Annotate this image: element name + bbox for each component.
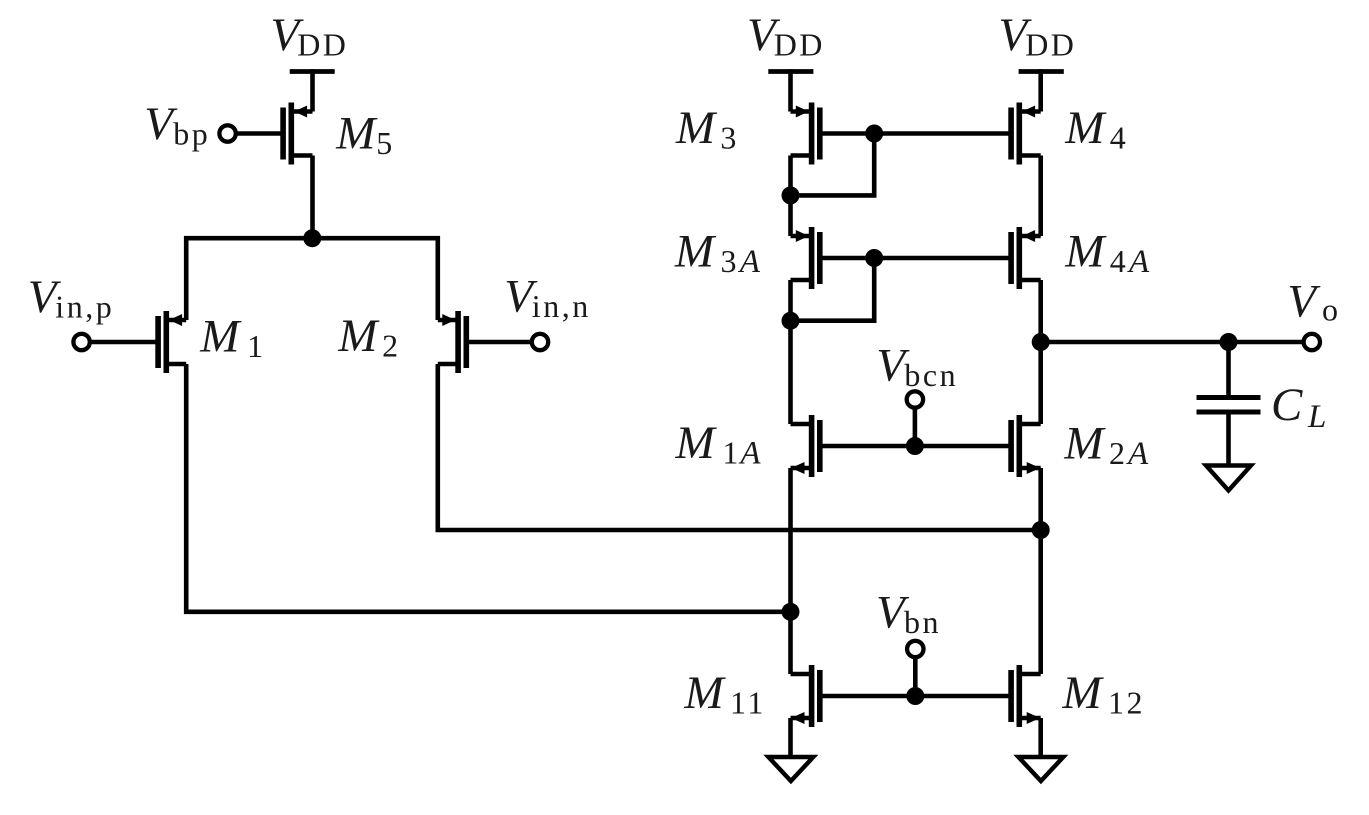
svg-text:DD: DD xyxy=(774,27,825,63)
svg-text:M: M xyxy=(1062,667,1105,719)
node C_L tap xyxy=(1220,333,1238,351)
terminal V_bn xyxy=(907,641,923,657)
svg-text:in,p: in,p xyxy=(55,288,114,324)
svg-text:3: 3 xyxy=(720,120,739,156)
terminal V_in,n xyxy=(532,334,548,350)
ground M12 xyxy=(1018,757,1063,781)
wire V_in,p to M1 gate xyxy=(89,340,158,345)
svg-text:A: A xyxy=(738,244,762,280)
transistor M4 (PMOS) xyxy=(1011,103,1041,165)
wire output xyxy=(1041,340,1304,345)
svg-text:bn: bn xyxy=(904,604,941,640)
wire M3 diode connection xyxy=(791,134,875,196)
svg-text:M: M xyxy=(337,310,380,362)
wire M2 drain down and right to M2A source column xyxy=(438,364,1041,530)
node M3A drain xyxy=(782,312,800,330)
svg-text:M: M xyxy=(674,226,717,278)
svg-text:M: M xyxy=(684,667,727,719)
wire VDD to M5 source xyxy=(310,69,315,111)
terminal V_bp xyxy=(219,125,235,141)
transistor M2A (NMOS) xyxy=(1011,415,1041,477)
svg-text:o: o xyxy=(1322,292,1341,328)
transistor M3 (PMOS mirrored) xyxy=(791,103,820,165)
svg-text:2: 2 xyxy=(1109,435,1128,471)
svg-text:1: 1 xyxy=(722,435,741,471)
svg-text:3: 3 xyxy=(721,243,740,279)
transistor M1 (PMOS) xyxy=(158,311,186,373)
svg-text:M: M xyxy=(335,108,378,160)
svg-text:M: M xyxy=(675,102,718,154)
wire M11 source to ground xyxy=(788,718,793,757)
wire M1A source down to M11 drain xyxy=(788,468,793,674)
svg-text:M: M xyxy=(1064,102,1107,154)
svg-text:2: 2 xyxy=(382,328,401,364)
svg-text:A: A xyxy=(738,436,762,472)
svg-text:12: 12 xyxy=(1108,685,1145,721)
wire V_bn terminal xyxy=(913,656,918,696)
svg-text:C: C xyxy=(1271,379,1303,431)
node V_bn xyxy=(906,687,924,705)
wire output node to capacitor xyxy=(1226,342,1231,395)
wire M1 drain down and right to node below M11 column xyxy=(186,364,790,612)
node M3 gate xyxy=(865,125,883,143)
terminal V_in,p xyxy=(73,334,89,350)
transistor M2 (PMOS mirrored) xyxy=(438,311,467,373)
transistor M11 (NMOS mirrored) xyxy=(791,665,820,727)
VDD rail symbol middle (M3) xyxy=(768,69,813,74)
wire M2A drain up to output node xyxy=(1038,342,1043,424)
svg-text:1: 1 xyxy=(247,328,266,364)
wire VDD to M4 source xyxy=(1038,69,1043,111)
svg-text:A: A xyxy=(1127,244,1151,280)
wire V_bcn terminal xyxy=(913,407,918,446)
svg-text:A: A xyxy=(1126,436,1150,472)
svg-text:M: M xyxy=(1063,418,1106,470)
transistor M12 (NMOS) xyxy=(1011,665,1041,727)
ground M11 xyxy=(768,757,813,781)
wire VDD to M3 source xyxy=(788,69,793,111)
node M1 drain junction xyxy=(782,603,800,621)
wire M3A drain to M1A drain xyxy=(788,280,793,424)
svg-text:DD: DD xyxy=(297,27,348,63)
wire gate bus M3-M4 xyxy=(820,131,1011,136)
wire M2 gate to V_in,n xyxy=(466,340,533,345)
node M3 drain xyxy=(782,186,800,204)
svg-text:bp: bp xyxy=(173,116,210,152)
svg-text:in,n: in,n xyxy=(532,288,591,324)
node V_bcn xyxy=(906,437,924,455)
svg-text:L: L xyxy=(1307,399,1328,435)
wire M4A drain to output node xyxy=(1038,280,1043,342)
wire M2A source down to M12 drain xyxy=(1038,468,1043,674)
svg-text:M: M xyxy=(1064,226,1107,278)
svg-text:5: 5 xyxy=(376,125,395,161)
VDD rail symbol left (M5) xyxy=(290,69,335,74)
svg-text:DD: DD xyxy=(1025,27,1076,63)
wire M3A diode connection xyxy=(791,258,875,321)
node M3A gate xyxy=(865,249,883,267)
svg-text:bcn: bcn xyxy=(904,357,958,393)
wire gate bus M3A-M4A xyxy=(820,256,1011,261)
wire tail rail with M1/M2 source risers xyxy=(186,238,438,320)
svg-text:11: 11 xyxy=(730,685,766,721)
wire M4 drain to M4A source xyxy=(1038,156,1043,237)
wire gate bus M11-M12 xyxy=(820,694,1011,699)
wire M3 drain to M3A source xyxy=(788,156,793,237)
transistor M1A (NMOS mirrored) xyxy=(791,415,820,477)
transistor M3A (PMOS mirrored) xyxy=(791,227,820,289)
terminal V_bcn xyxy=(907,391,923,407)
svg-text:4: 4 xyxy=(1110,120,1129,156)
capacitor C_L xyxy=(1197,398,1261,413)
wire V_bp to M5 gate xyxy=(235,131,284,136)
transistor M4A (PMOS) xyxy=(1011,227,1041,289)
wire M5 drain to tail node xyxy=(310,156,315,239)
wire capacitor to ground xyxy=(1226,415,1231,466)
svg-text:M: M xyxy=(199,310,242,362)
node M2 drain junction xyxy=(1032,521,1050,539)
node output at M4A drain xyxy=(1032,333,1050,351)
ground C_L xyxy=(1206,466,1251,491)
svg-text:M: M xyxy=(675,417,718,469)
wire gate bus M1A-M2A xyxy=(820,444,1011,449)
node tail xyxy=(303,229,321,247)
transistor M5 (PMOS) xyxy=(283,103,312,165)
VDD rail symbol right (M4) xyxy=(1019,69,1064,74)
terminal V_o xyxy=(1304,334,1320,350)
svg-text:4: 4 xyxy=(1110,243,1129,279)
wire M12 source to ground xyxy=(1038,718,1043,757)
